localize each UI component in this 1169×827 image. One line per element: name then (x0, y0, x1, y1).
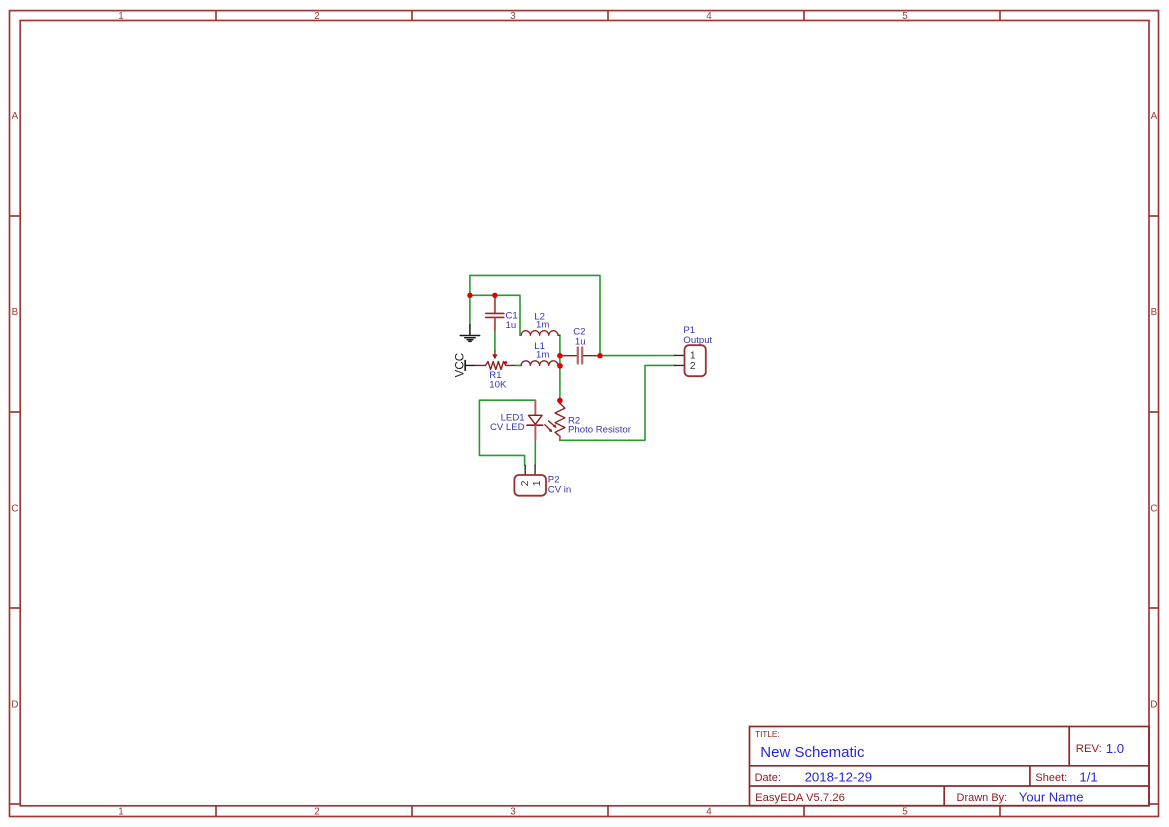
svg-text:TITLE:: TITLE: (755, 730, 780, 739)
wire node to C1/L2 (470, 295, 520, 335)
svg-text:10K: 10K (489, 379, 507, 390)
VCC power flag (454, 353, 476, 377)
wire R1 to L1 (514, 364, 521, 366)
svg-text:D: D (11, 700, 18, 711)
junction dot B (492, 293, 497, 298)
C1 labels (506, 311, 518, 331)
svg-text:2018-12-29: 2018-12-29 (805, 769, 872, 784)
svg-text:D: D (1150, 700, 1157, 711)
svg-text:1m: 1m (536, 350, 549, 361)
connector P1 (674, 345, 706, 376)
inductor L2 (521, 331, 560, 336)
C2 labels (573, 326, 585, 347)
svg-text:Date:: Date: (755, 772, 781, 784)
inductor L1 (521, 361, 560, 366)
capacitor C1 (486, 296, 504, 331)
svg-text:VCC: VCC (454, 353, 467, 377)
svg-text:1u: 1u (506, 320, 517, 331)
svg-text:A: A (1151, 111, 1158, 122)
svg-text:1: 1 (690, 351, 696, 362)
svg-text:1/1: 1/1 (1079, 769, 1097, 784)
svg-text:C: C (1150, 503, 1157, 514)
svg-text:1: 1 (118, 807, 123, 818)
svg-text:New Schematic: New Schematic (760, 744, 865, 761)
junction dot D (557, 363, 563, 369)
svg-text:2: 2 (314, 11, 319, 22)
R1 pin1 dot (504, 361, 507, 364)
R1 labels (489, 370, 507, 390)
title block (750, 727, 1150, 806)
svg-text:4: 4 (706, 11, 712, 22)
junction dot E (557, 398, 563, 404)
junction dot A (467, 293, 472, 298)
svg-text:B: B (12, 307, 19, 318)
wire down to R2 (559, 366, 561, 401)
L1 labels (534, 341, 549, 361)
svg-text:C: C (11, 503, 18, 514)
P1 labels (683, 325, 712, 346)
svg-text:1u: 1u (575, 336, 586, 347)
svg-text:Drawn By:: Drawn By: (957, 792, 1008, 804)
svg-text:Sheet:: Sheet: (1035, 772, 1067, 784)
wire vcc-net left drop (469, 275, 471, 295)
LED LED1 (527, 401, 543, 440)
resistor R2 (photo resistor) (545, 401, 565, 441)
R2 light arrow heads (553, 424, 557, 428)
connector P2 (514, 465, 546, 496)
R1 wiper arrow head (492, 354, 497, 359)
svg-text:4: 4 (706, 807, 712, 818)
wire C2 to P1 pin1 (600, 355, 674, 357)
svg-text:3: 3 (510, 807, 516, 818)
svg-text:2: 2 (314, 807, 319, 818)
svg-text:5: 5 (902, 11, 908, 22)
ground (460, 325, 480, 342)
svg-text:REV:: REV: (1076, 743, 1102, 755)
svg-text:3: 3 (510, 11, 516, 22)
svg-text:1: 1 (118, 11, 123, 22)
wire L2 right drop (559, 335, 561, 355)
svg-text:Your Name: Your Name (1019, 789, 1084, 804)
svg-text:CV in: CV in (548, 485, 571, 496)
svg-text:Photo Resistor: Photo Resistor (568, 425, 632, 436)
svg-text:1: 1 (532, 480, 543, 486)
L2 labels (534, 311, 549, 330)
wire C1 to R1 wiper (494, 331, 496, 352)
P2 labels (548, 475, 571, 496)
svg-text:2: 2 (520, 480, 531, 486)
svg-text:2: 2 (690, 361, 696, 372)
wire LED loop (479, 400, 535, 465)
svg-text:Output: Output (683, 335, 712, 346)
LED1 labels (490, 412, 525, 432)
wire LED cathode to P2 pin1 (534, 440, 536, 465)
svg-text:EasyEDA V5.7.26: EasyEDA V5.7.26 (755, 792, 845, 804)
wire top net (470, 275, 600, 355)
R2 labels (568, 416, 632, 436)
wire node join (559, 356, 561, 366)
svg-text:1m: 1m (536, 320, 549, 331)
capacitor C2 (561, 347, 600, 363)
svg-text:A: A (12, 111, 19, 122)
svg-text:B: B (1151, 307, 1158, 318)
junction dot C (557, 353, 563, 359)
svg-text:1.0: 1.0 (1106, 741, 1124, 756)
resistor R1 (potentiometer) (475, 351, 514, 370)
junction dot F (597, 353, 602, 358)
svg-text:5: 5 (902, 807, 908, 818)
wire ground drop (469, 295, 471, 324)
wire P1 pin2 return (560, 365, 675, 440)
svg-text:CV LED: CV LED (490, 422, 525, 433)
